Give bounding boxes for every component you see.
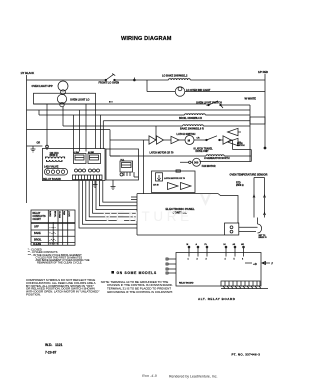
svg-text:OVEN TEMPERATURE SENSOR: OVEN TEMPERATURE SENSOR — [230, 173, 268, 176]
svg-text:1: 1 — [188, 259, 190, 261]
svg-text:◄D: ◄D — [253, 263, 257, 266]
svg-text:ALT. RELAY BOARD: ALT. RELAY BOARD — [198, 297, 236, 301]
terminals top — [189, 247, 244, 257]
svg-text:4: 4 — [225, 258, 227, 261]
svg-text:** ** * * *: ** ** * * * — [50, 244, 59, 246]
edge connector — [221, 281, 260, 286]
svg-text:Ron -4-9: Ron -4-9 — [142, 374, 158, 378]
svg-text:2: 2 — [197, 259, 199, 261]
relay RL1 — [120, 159, 133, 176]
latch line M1 — [110, 133, 233, 145]
svg-text:* - - * -: * - - * - — [50, 233, 57, 235]
transformer T1 — [46, 157, 65, 163]
wire smallbox to plug — [239, 227, 258, 231]
ground under box B — [111, 180, 116, 190]
svg-text:L410 VALVE: L410 VALVE — [44, 165, 59, 168]
wire ind light line — [147, 80, 265, 92]
svg-text:LO OVEN IND LIGHT: LO OVEN IND LIGHT — [186, 89, 211, 92]
box right contact box — [250, 117, 265, 124]
terminal strip oval — [45, 169, 68, 176]
svg-text:H GENERATOR NORTH: H GENERATOR NORTH — [204, 157, 230, 160]
notes under table — [28, 247, 90, 264]
svg-text:PT. NO. 337446-3: PT. NO. 337446-3 — [232, 353, 261, 357]
svg-text:RELAY BOARD: RELAY BOARD — [43, 178, 61, 181]
wire top bus horizontal — [27, 79, 106, 81]
latch motor circle — [185, 136, 194, 145]
wire band line2 — [27, 109, 251, 111]
svg-text:FL: FL — [205, 244, 208, 246]
svg-text:LATCH MOTOR CR 70: LATCH MOTOR CR 70 — [150, 152, 175, 155]
svg-text:OVEN LIGHT UPP: OVEN LIGHT UPP — [32, 85, 53, 88]
svg-text:BAKE: BAKE — [49, 211, 52, 217]
left stubs — [168, 259, 176, 273]
svg-text:LOCK: LOCK — [68, 211, 70, 217]
relay K1 — [73, 151, 86, 164]
svg-text:VENTURE: VENTURE — [103, 209, 193, 224]
fan motor — [180, 158, 216, 168]
svg-text:M: M — [188, 139, 191, 143]
switch OVEN LIGHT SWITCH — [196, 101, 223, 108]
svg-text:BROIL: BROIL — [53, 211, 55, 218]
element LO BAKE 2000W/21.2 — [162, 74, 190, 80]
oven temperature sensor — [230, 173, 268, 217]
relay K2 — [88, 151, 101, 164]
wire band line3 broil — [39, 110, 250, 120]
svg-text:CR: CR — [197, 137, 200, 139]
svg-text:A2: A2 — [233, 243, 236, 246]
svg-text:LATCH MOTOR CR 70: LATCH MOTOR CR 70 — [164, 177, 186, 180]
svg-text:A: A — [196, 243, 198, 246]
svg-text:- * - * -: - * - * - — [50, 239, 57, 241]
box door lock board B — [106, 149, 139, 180]
bottom credit — [142, 374, 217, 379]
wire verticals from band to boxes — [46, 104, 48, 147]
wire band line5 bake — [63, 107, 250, 131]
contact circles row — [75, 169, 100, 172]
wire band line4 — [103, 120, 250, 122]
svg-text:BRKR 70: BRKR 70 — [259, 237, 267, 239]
svg-text:BROIL 3400W/8.4 R: BROIL 3400W/8.4 R — [179, 117, 202, 120]
svg-text:300: 300 — [194, 161, 199, 165]
svg-text:LO BAKE 2000W/21.2: LO BAKE 2000W/21.2 — [162, 74, 188, 77]
wire line1 to white bus — [206, 104, 250, 106]
svg-text:CHART: CHART — [33, 218, 42, 221]
junction node B — [133, 78, 135, 81]
svg-text:W WHITE: W WHITE — [245, 97, 257, 101]
svg-text:M: M — [187, 244, 189, 246]
door switch triangles — [228, 128, 246, 147]
wire red bus vertical — [264, 74, 266, 148]
svg-text:REMAINDER OF THE CLEAN CYCLE.: REMAINDER OF THE CLEAN CYCLE. — [37, 261, 82, 265]
svg-text:BAKE: BAKE — [34, 232, 41, 235]
bundle wires relay board to panel — [79, 181, 137, 229]
svg-text:FAN MOTOR: FAN MOTOR — [202, 165, 216, 168]
svg-text:BAKE 2000W/21.6 R: BAKE 2000W/21.6 R — [180, 128, 204, 131]
wire vertical to panel — [143, 140, 145, 194]
edge connector strip — [73, 175, 103, 180]
svg-text:7-23-87: 7-23-87 — [45, 351, 57, 355]
switch FRONT LO OVEN — [99, 74, 120, 85]
wire top bus to red bus — [190, 79, 265, 81]
lamp lo oven ind light — [175, 87, 211, 97]
svg-text:POSITION.: POSITION. — [26, 293, 41, 297]
wire white bus vertical — [249, 105, 251, 162]
left paragraph — [26, 278, 99, 297]
svg-text:W.D. 1121: W.D. 1121 — [45, 343, 63, 347]
svg-text:CR 40: CR 40 — [153, 183, 160, 186]
svg-text:8 LATCH TRAVEL: 8 LATCH TRAVEL — [194, 147, 214, 150]
watermark — [103, 194, 211, 224]
ground left with OR label — [27, 142, 43, 153]
box oven light lower — [34, 93, 96, 104]
latch switch symbol — [206, 139, 208, 141]
arrow F — [262, 262, 270, 265]
svg-text:WIRING DIAGRAM: WIRING DIAGRAM — [121, 36, 172, 42]
wire inside box B — [110, 149, 139, 177]
latch line M2 heater — [110, 155, 251, 161]
svg-text:ON SOME MODELS: ON SOME MODELS — [117, 271, 157, 275]
svg-text:OVEN LIGHT LO: OVEN LIGHT LO — [70, 98, 90, 101]
svg-text:SWITCH: SWITCH — [237, 145, 245, 147]
svg-text:RELAY BOARD: RELAY BOARD — [179, 282, 194, 285]
wire left bus vertical — [26, 75, 28, 203]
relay contacts chart table — [31, 210, 75, 246]
svg-text:2500 Ω: 2500 Ω — [236, 185, 244, 187]
svg-text:F: F — [272, 263, 274, 266]
lamp oven light lo — [57, 94, 89, 106]
svg-text:HI: HI — [224, 244, 226, 246]
svg-text:FRONT LO OVEN: FRONT LO OVEN — [99, 82, 120, 85]
electronic panel control box — [137, 194, 239, 235]
wire top bus continues — [115, 79, 169, 81]
svg-text:OR: OR — [37, 142, 41, 145]
ground under strip — [93, 181, 98, 188]
wire right loop — [200, 140, 252, 162]
svg-text:HO: HO — [241, 244, 244, 246]
svg-text:LATCH SWITCH: LATCH SWITCH — [177, 133, 196, 136]
wire hd to arrow — [245, 262, 252, 264]
wire sensor to plug — [257, 218, 259, 225]
ALT relay board — [166, 243, 268, 289]
svg-text:3: 3 — [206, 259, 208, 261]
svg-text:CLEAN: CLEAN — [33, 243, 41, 246]
svg-text:1/P RED: 1/P RED — [258, 70, 268, 74]
wire band line1 (oven light switch line) — [34, 103, 207, 105]
svg-text:GROUNDING IF THE CONTROL IS CO: GROUNDING IF THE CONTROL IS COLDSTART. — [107, 290, 173, 294]
svg-text:OFF: OFF — [34, 226, 39, 229]
plug hook — [258, 224, 262, 233]
svg-text:DRIVE UNIT: DRIVE UNIT — [196, 151, 210, 153]
svg-text:FAN: FAN — [63, 211, 66, 216]
box latch motor CR — [152, 170, 196, 193]
note on some models — [111, 271, 114, 274]
svg-text:- - - - -: - - - - - — [50, 227, 56, 229]
connector triangles pair — [149, 136, 164, 144]
svg-text:CLEAN: CLEAN — [58, 211, 61, 218]
right paragraph — [101, 280, 173, 294]
svg-text:BROIL: BROIL — [34, 238, 42, 241]
svg-text:5: 5 — [234, 259, 236, 261]
svg-text:1/Y BLACK: 1/Y BLACK — [21, 71, 35, 75]
svg-text:Rendered by LeadVenture, Inc.: Rendered by LeadVenture, Inc. — [169, 375, 217, 379]
box relay board A — [42, 149, 105, 181]
node P dots — [109, 101, 113, 103]
svg-text:6: 6 — [242, 259, 244, 261]
lamp oven light upper — [32, 81, 69, 95]
